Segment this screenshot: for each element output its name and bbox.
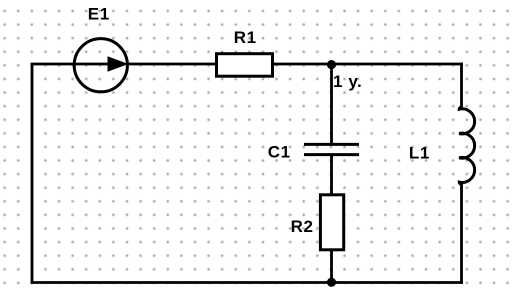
resistor R1: [217, 54, 273, 76]
svg-text:R2: R2: [291, 217, 314, 236]
wire: right vertical lower segment: [460, 181, 463, 284]
svg-text:R1: R1: [234, 28, 257, 47]
svg-text:L1: L1: [409, 144, 430, 163]
wire: bottom horizontal: [31, 281, 463, 284]
wire: right vertical upper segment: [460, 63, 463, 110]
source E1 (circle with arrow): [74, 39, 128, 92]
capacitor C1: [304, 144, 359, 154]
inductor L1 (coil of three arcs): [459, 107, 474, 185]
wire: source E1 to resistor R1: [128, 63, 217, 66]
resistor R2: [320, 195, 343, 250]
wire: middle branch node 1 to capacitor C1: [330, 64, 333, 144]
wire: top left segment to source E1: [31, 63, 75, 66]
svg-text:C1: C1: [268, 143, 291, 162]
wire: capacitor C1 to resistor R2: [330, 156, 333, 195]
wire: left vertical branch: [31, 64, 34, 283]
node 1 (junction dot): [327, 60, 336, 69]
svg-text:1 у.: 1 у.: [333, 72, 362, 91]
wire: resistor R2 to bottom node: [330, 250, 333, 283]
svg-text:E1: E1: [88, 5, 110, 24]
bottom junction dot: [327, 278, 336, 287]
wire: resistor R1 to node 1 and on to right branch: [273, 63, 463, 66]
